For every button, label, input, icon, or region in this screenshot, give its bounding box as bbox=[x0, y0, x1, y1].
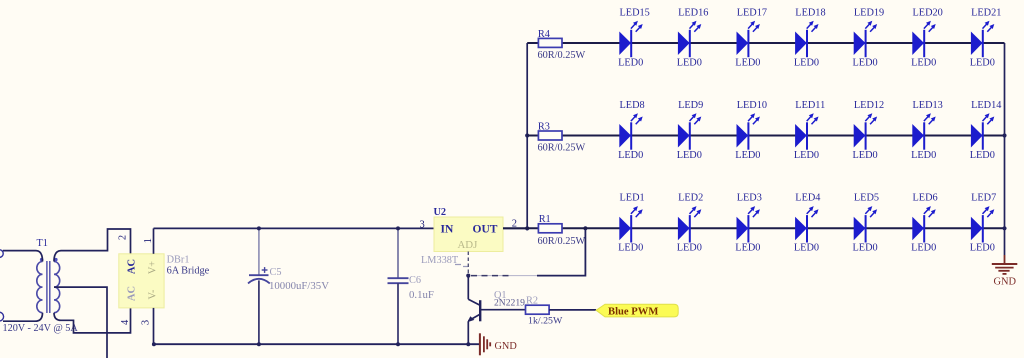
svg-text:OUT: OUT bbox=[473, 224, 498, 236]
resistor R4 bbox=[538, 38, 562, 47]
wire LED row 1 bbox=[527, 42, 1004, 44]
svg-text:LED14: LED14 bbox=[971, 100, 1001, 111]
svg-text:6A Bridge: 6A Bridge bbox=[167, 266, 210, 277]
LED LED8 bbox=[618, 100, 645, 161]
svg-text:ADJ: ADJ bbox=[458, 239, 478, 251]
wire secondary center tap bbox=[54, 287, 107, 358]
svg-text:LED8: LED8 bbox=[620, 100, 645, 111]
svg-text:LED2: LED2 bbox=[678, 193, 703, 204]
svg-text:LED6: LED6 bbox=[913, 193, 938, 204]
svg-text:GND: GND bbox=[495, 341, 518, 352]
transformer T1 bbox=[37, 238, 60, 313]
junction left rail at U2 OUT / R1 bbox=[525, 226, 529, 230]
svg-text:LED0: LED0 bbox=[970, 57, 995, 68]
LED LED17 bbox=[735, 7, 767, 68]
wire ADJ feedback solid part bbox=[537, 228, 585, 275]
svg-text:R4: R4 bbox=[538, 29, 550, 40]
LED LED11 bbox=[794, 100, 825, 161]
bridge rectifier DBr1 bbox=[119, 254, 164, 308]
ground GND (left, sideways) bbox=[480, 333, 517, 355]
svg-text:IN: IN bbox=[441, 224, 454, 236]
svg-text:LED0: LED0 bbox=[794, 243, 819, 254]
svg-text:LED0: LED0 bbox=[911, 243, 936, 254]
LED LED4 bbox=[794, 193, 821, 254]
svg-text:LED7: LED7 bbox=[971, 193, 996, 204]
wire left distribution rail bbox=[526, 43, 528, 228]
svg-text:LED0: LED0 bbox=[618, 243, 643, 254]
junction on bottom rail at bridge pin 3 bbox=[152, 342, 156, 346]
wire U2 OUT to rail bbox=[503, 227, 527, 229]
junction C5 bottom bbox=[257, 342, 261, 346]
regulator U2 bbox=[434, 217, 503, 252]
wire bridge pin 3 to bottom rail bbox=[153, 308, 155, 344]
LED LED21 bbox=[970, 7, 1002, 68]
junction R1 right bbox=[583, 226, 587, 230]
ground GND (right) bbox=[992, 264, 1018, 287]
LED LED19 bbox=[853, 7, 885, 68]
svg-text:LED19: LED19 bbox=[854, 7, 884, 18]
svg-text:3: 3 bbox=[420, 220, 425, 231]
svg-text:AC: AC bbox=[127, 286, 138, 301]
svg-text:LED3: LED3 bbox=[737, 193, 762, 204]
svg-text:LED0: LED0 bbox=[970, 150, 995, 161]
svg-text:LM338T: LM338T bbox=[421, 255, 459, 266]
junction C5 top bbox=[257, 226, 261, 230]
svg-text:LED12: LED12 bbox=[854, 100, 884, 111]
svg-text:1: 1 bbox=[143, 238, 154, 243]
svg-text:LED0: LED0 bbox=[794, 150, 819, 161]
svg-text:LED0: LED0 bbox=[618, 150, 643, 161]
wire bottom ground rail bbox=[154, 343, 480, 345]
LED LED18 bbox=[794, 7, 826, 68]
svg-text:3: 3 bbox=[141, 320, 152, 325]
svg-text:60R/0.25W: 60R/0.25W bbox=[538, 143, 586, 154]
svg-text:LED0: LED0 bbox=[853, 57, 878, 68]
resistor R2 bbox=[526, 305, 550, 314]
LED LED7 bbox=[970, 193, 997, 254]
wire ADJ node down to Q1 collector bbox=[467, 276, 469, 300]
svg-text:C5: C5 bbox=[270, 267, 282, 278]
svg-text:GND: GND bbox=[994, 276, 1017, 287]
svg-text:LED0: LED0 bbox=[794, 57, 819, 68]
LED LED20 bbox=[911, 7, 943, 68]
svg-text:LED0: LED0 bbox=[735, 57, 760, 68]
svg-text:60R/0.25W: 60R/0.25W bbox=[538, 50, 586, 61]
LED LED3 bbox=[735, 193, 762, 254]
svg-text:AC: AC bbox=[127, 259, 138, 274]
svg-text:V-: V- bbox=[148, 289, 159, 299]
junction right rail row 3 bbox=[1002, 226, 1006, 230]
junction C6 bottom bbox=[396, 342, 400, 346]
LED LED15 bbox=[618, 7, 650, 68]
port P1 (120V input top terminal) bbox=[0, 250, 3, 258]
svg-text:LED0: LED0 bbox=[853, 243, 878, 254]
svg-text:LED4: LED4 bbox=[795, 193, 820, 204]
svg-text:LED17: LED17 bbox=[737, 7, 767, 18]
svg-text:LED0: LED0 bbox=[735, 150, 760, 161]
svg-text:C6: C6 bbox=[409, 275, 421, 286]
svg-text:0.1uF: 0.1uF bbox=[409, 289, 434, 301]
wire right return rail bbox=[1004, 43, 1006, 255]
svg-text:1k/.25W: 1k/.25W bbox=[528, 315, 563, 326]
svg-text:2N2219: 2N2219 bbox=[494, 297, 525, 308]
svg-text:LED18: LED18 bbox=[795, 7, 825, 18]
LED LED2 bbox=[677, 193, 704, 254]
svg-text:LED11: LED11 bbox=[795, 100, 825, 111]
svg-text:LED21: LED21 bbox=[971, 7, 1001, 18]
LED LED14 bbox=[970, 100, 1002, 161]
svg-text:Blue PWM: Blue PWM bbox=[608, 306, 658, 317]
svg-text:LED0: LED0 bbox=[853, 150, 878, 161]
wire Q1 base to R2 bbox=[481, 309, 526, 311]
wire LED row 3 bbox=[503, 227, 1005, 229]
junction right rail row 2 bbox=[1002, 133, 1006, 137]
svg-text:LED10: LED10 bbox=[737, 100, 767, 111]
net flag Blue PWM bbox=[596, 304, 678, 317]
LED LED12 bbox=[853, 100, 885, 161]
svg-text:2: 2 bbox=[117, 235, 128, 240]
wire secondary bottom lead to bridge pin 4 bbox=[54, 308, 131, 333]
LED LED16 bbox=[677, 7, 709, 68]
LED LED13 bbox=[911, 100, 943, 161]
svg-text:LED5: LED5 bbox=[854, 193, 879, 204]
svg-text:LED0: LED0 bbox=[677, 150, 702, 161]
wire primary bottom lead bbox=[3, 313, 43, 322]
svg-text:LED0: LED0 bbox=[735, 243, 760, 254]
LED LED6 bbox=[911, 193, 938, 254]
svg-text:R1: R1 bbox=[539, 214, 551, 225]
svg-text:LED0: LED0 bbox=[911, 150, 936, 161]
svg-text:LED0: LED0 bbox=[677, 57, 702, 68]
LED LED9 bbox=[677, 100, 704, 161]
capacitor C6 bbox=[388, 228, 409, 344]
svg-text:LED15: LED15 bbox=[620, 7, 650, 18]
svg-text:T1: T1 bbox=[37, 238, 48, 249]
LED LED10 bbox=[735, 100, 767, 161]
junction Q1 emitter on bottom rail bbox=[466, 342, 470, 346]
svg-text:4: 4 bbox=[120, 319, 131, 325]
junction C6 top bbox=[396, 226, 400, 230]
wire LED row 2 bbox=[527, 135, 1004, 137]
svg-text:60R/0.25W: 60R/0.25W bbox=[538, 236, 586, 247]
ADJ pin dashed stub bbox=[467, 252, 469, 276]
port P2 (120V input bottom terminal) bbox=[0, 312, 4, 321]
svg-text:R3: R3 bbox=[538, 121, 550, 132]
svg-text:LED0: LED0 bbox=[677, 243, 702, 254]
label LM338T with leader bbox=[421, 255, 468, 267]
resistor R1 bbox=[538, 224, 562, 233]
svg-text:LED20: LED20 bbox=[913, 7, 943, 18]
junction ADJ node bbox=[466, 274, 470, 278]
LED LED1 bbox=[618, 193, 645, 254]
svg-text:LED0: LED0 bbox=[911, 57, 936, 68]
wire R2 to Blue PWM flag bbox=[549, 309, 596, 311]
junction left rail at R3 bbox=[525, 133, 529, 137]
wire primary top lead bbox=[3, 251, 43, 262]
svg-text:U2: U2 bbox=[434, 207, 447, 218]
wire main V+ rail bbox=[154, 227, 435, 229]
capacitor C5 bbox=[248, 228, 270, 344]
wire ADJ feedback dashed part bbox=[470, 275, 538, 277]
wire bridge pin 1 to main rail bbox=[153, 228, 155, 253]
svg-text:DBr1: DBr1 bbox=[167, 255, 190, 266]
svg-text:LED16: LED16 bbox=[678, 7, 708, 18]
svg-text:LED0: LED0 bbox=[970, 243, 995, 254]
svg-text:120V - 24V @ 5A: 120V - 24V @ 5A bbox=[3, 323, 79, 334]
wire secondary top lead to bridge pin 2 bbox=[54, 229, 131, 262]
svg-text:LED13: LED13 bbox=[913, 100, 943, 111]
svg-text:LED0: LED0 bbox=[618, 57, 643, 68]
svg-text:LED9: LED9 bbox=[678, 100, 703, 111]
svg-text:LED1: LED1 bbox=[620, 193, 645, 204]
transistor Q1 bbox=[467, 299, 480, 344]
LED LED5 bbox=[853, 193, 880, 254]
svg-text:10000uF/35V: 10000uF/35V bbox=[269, 280, 329, 292]
svg-text:R2: R2 bbox=[526, 296, 538, 307]
svg-text:V+: V+ bbox=[148, 261, 159, 274]
resistor R3 bbox=[538, 131, 562, 140]
